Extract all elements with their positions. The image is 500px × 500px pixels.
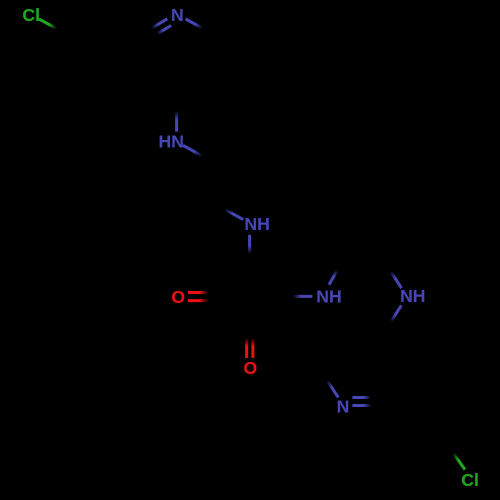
svg-text:Cl: Cl [22,5,40,25]
bond N(amine 1)-CH2 [183,145,202,156]
bond O1=C2ring lower line [188,299,208,302]
bond N(amine 2)-C3 ring [248,235,251,254]
bond C4-N(amine 1) [175,111,178,132]
bond CH2-N(amine 2) [225,209,244,219]
bond N1=C8a main line [152,19,168,29]
bond N1=C8a inner line [157,26,171,34]
bond N1=C8a quinoline 2 inner line [352,396,369,399]
bond N(amine 4)-C4 quinoline 2 [391,305,402,321]
bond N1-C2 quinoline 2 [327,380,338,397]
svg-text:Cl: Cl [461,470,479,490]
svg-text:NH: NH [400,286,425,306]
bond N1-C2 [186,19,203,28]
svg-text:NH: NH [244,214,269,234]
svg-text:N: N [171,5,184,25]
bond N1=C8a quinoline 2 main line [352,404,371,407]
bond Cl2-C7 [453,453,465,470]
svg-text:N: N [337,397,350,417]
bond C4ring-N(amine 3) [293,295,313,298]
svg-text:O: O [244,358,258,378]
bond N(amine 3)-CH2a [329,270,337,285]
bond O1=C2ring upper line [188,291,208,294]
svg-text:HN: HN [159,131,184,151]
bond O2=C1ring left line [245,338,248,358]
bond Cl1-C7 [39,19,57,29]
svg-text:O: O [171,287,185,307]
svg-text:NH: NH [316,286,341,306]
bond O2=C1ring right line [251,338,254,358]
bond CH2b-N(amine 4) [391,271,402,288]
